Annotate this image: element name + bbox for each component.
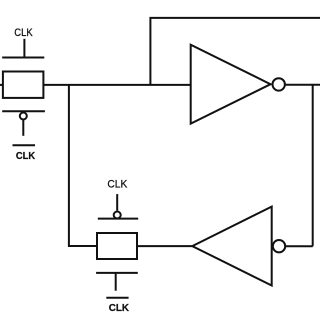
wire: top feedback wire to right image edge: [150, 18, 320, 85]
transmission gate TG1 box: [3, 72, 44, 98]
svg-text:CLK: CLK: [14, 27, 33, 39]
TG1 top gate lead: [23, 39, 25, 58]
TG2 CLKbar overline: [106, 297, 128, 299]
TG2 bottom gate lead: [115, 273, 117, 291]
svg-text:CLK: CLK: [107, 178, 128, 190]
TG2 top gate bar: [98, 218, 138, 220]
wire: branch down from main node to transmission gate TG2: [69, 85, 97, 246]
svg-text:CLK: CLK: [109, 302, 130, 314]
TG2 top gate bubble: [114, 212, 121, 219]
TG1 CLKbar overline: [13, 144, 36, 146]
wire: right vertical from U1 output down to U2 input: [312, 85, 314, 247]
wire: U1 output to right image edge: [285, 84, 320, 86]
transmission gate TG2 box: [97, 233, 137, 259]
inverter U2 triangle (points left): [192, 207, 271, 286]
TG1 bottom gate bubble: [20, 113, 27, 120]
U1 output bubble: [273, 78, 285, 90]
svg-text:CLK: CLK: [16, 150, 36, 162]
wire: input stub at left image edge into TG1: [0, 84, 3, 86]
wire: main horizontal node wire from TG1 to inverter U1 input: [43, 84, 190, 86]
TG2 top gate lead: [116, 194, 118, 210]
inverter U1 triangle: [191, 45, 271, 124]
TG2 bottom gate bar: [96, 272, 138, 274]
TG1 bottom gate lead: [22, 120, 24, 136]
wire: U2 output to TG2: [137, 245, 192, 247]
TG1 bottom gate bar: [2, 110, 45, 112]
wire: right vertical to U2 input bubble: [286, 245, 313, 247]
U2 input bubble: [273, 240, 285, 252]
TG1 top gate bar: [2, 57, 44, 59]
